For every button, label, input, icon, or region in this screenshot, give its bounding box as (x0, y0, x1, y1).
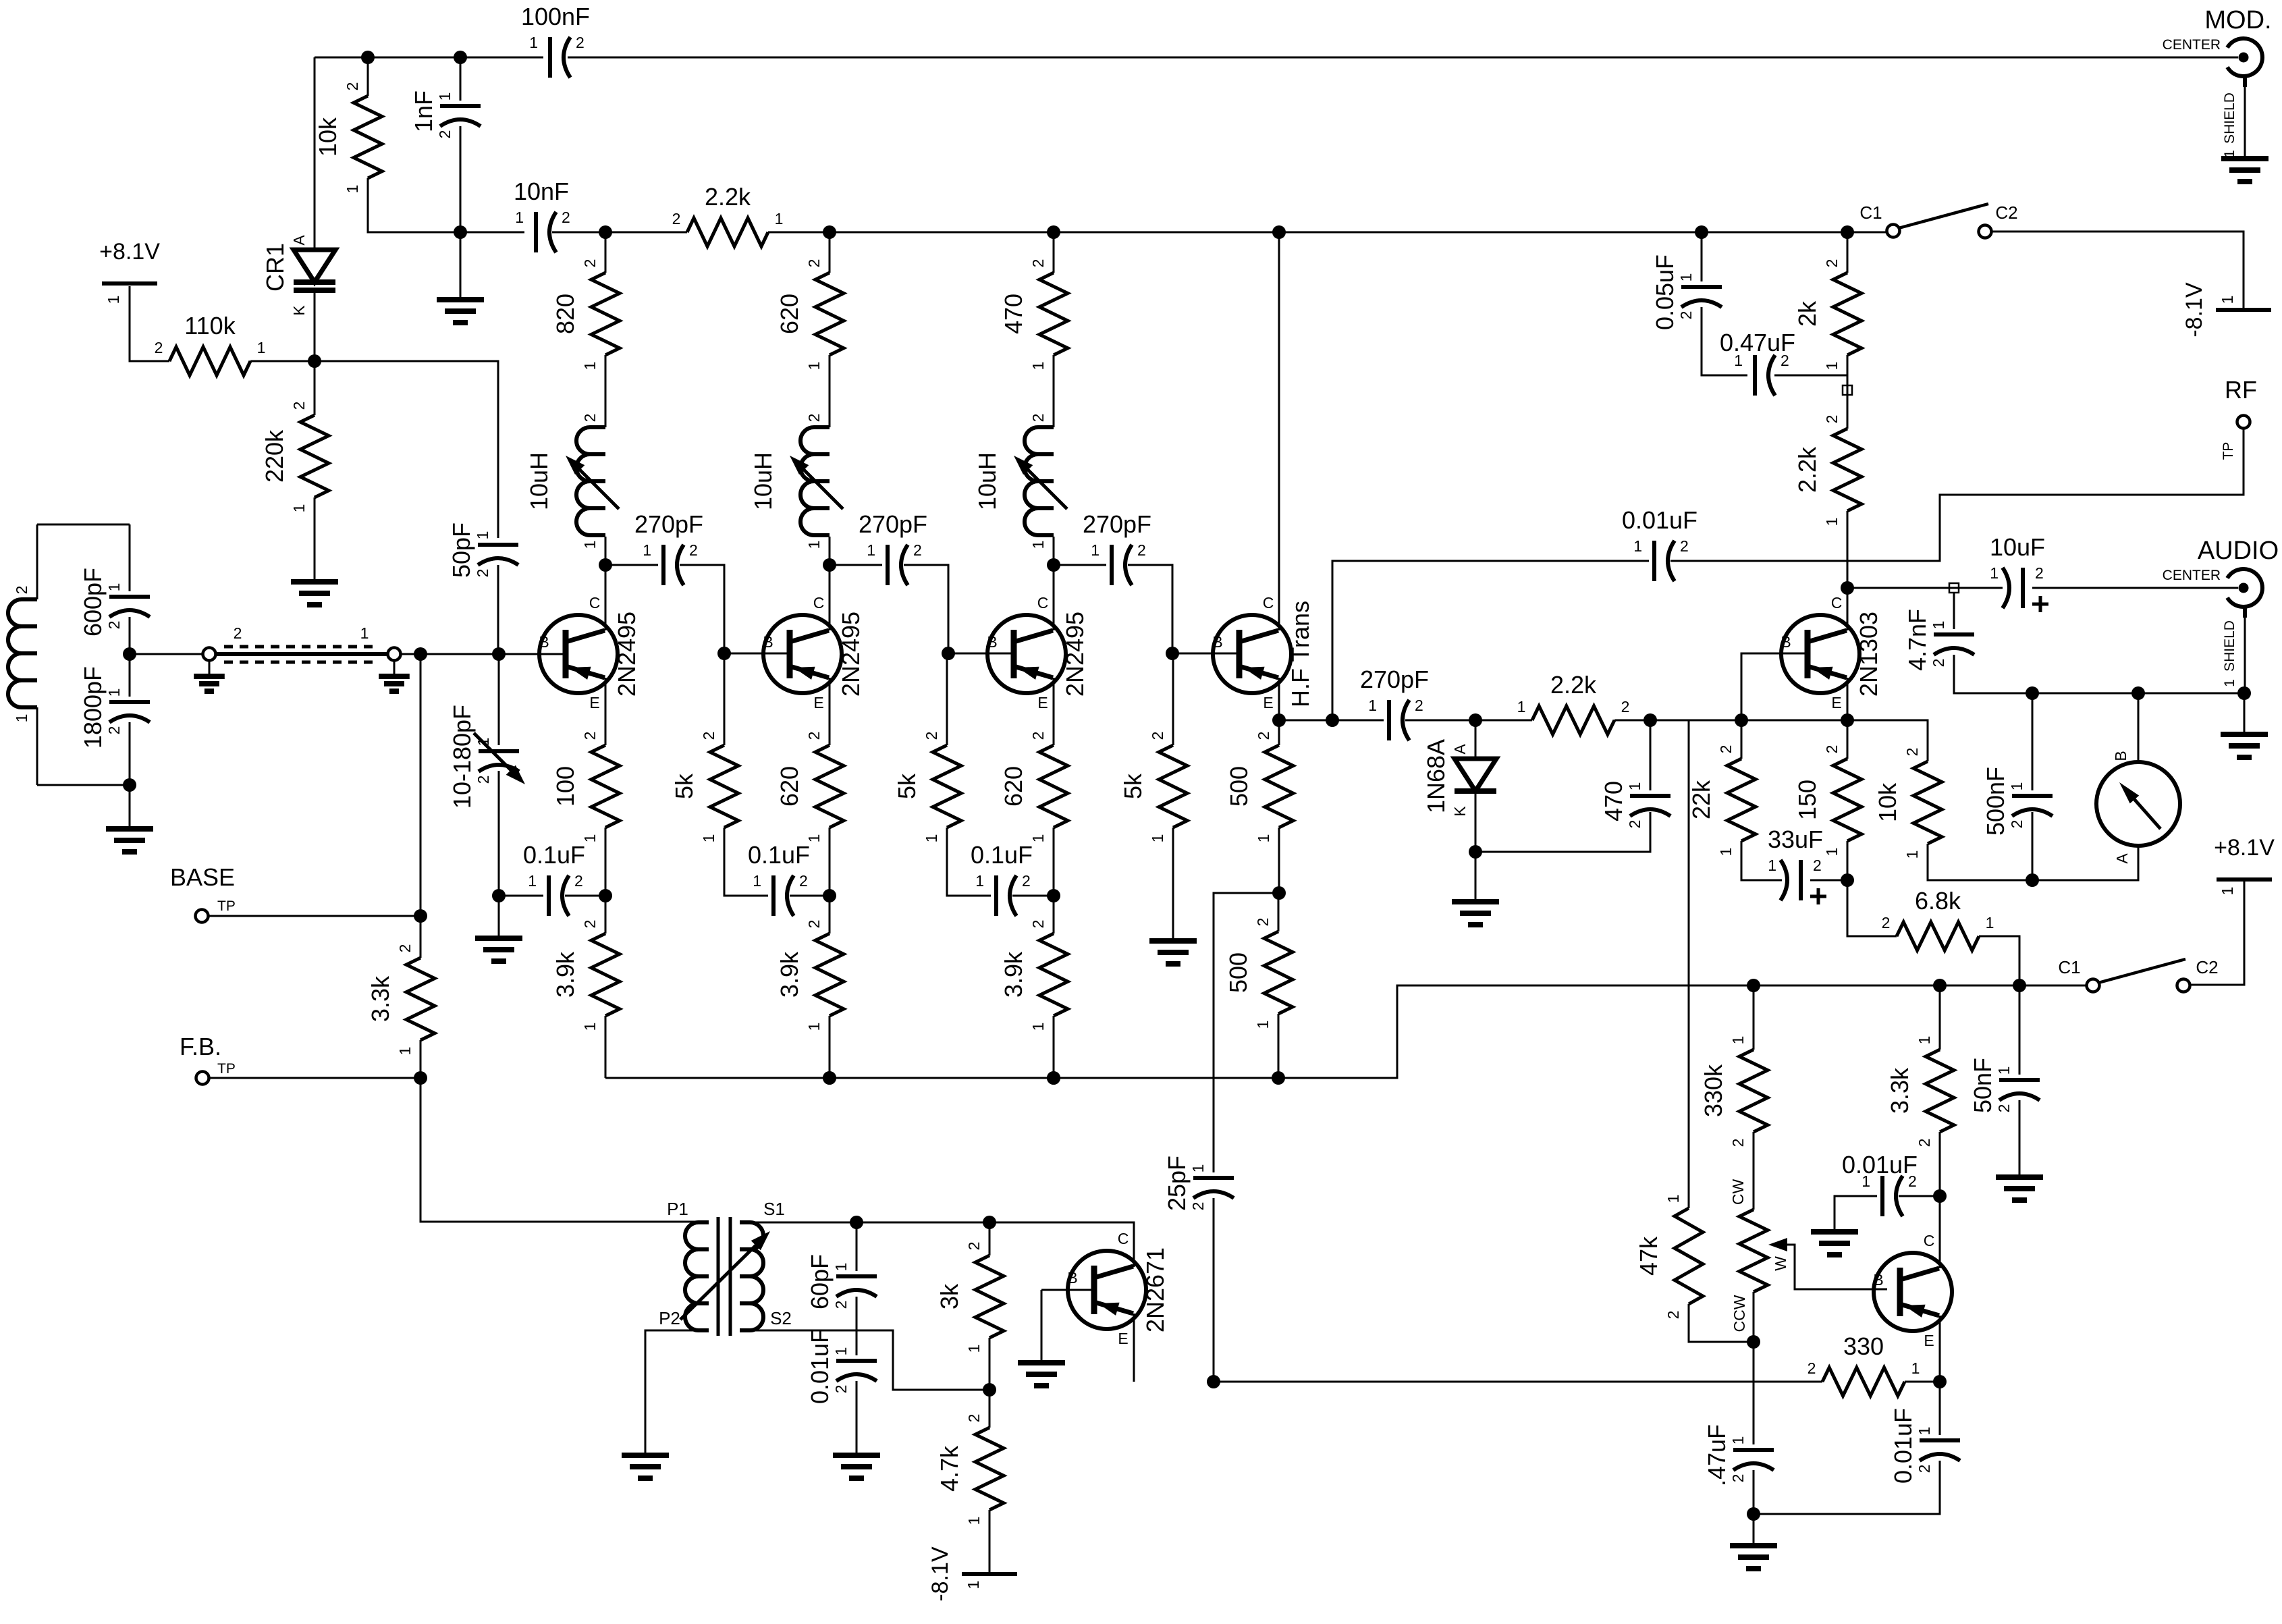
svg-text:2: 2 (105, 621, 123, 630)
capacitor 1800pF (79, 666, 150, 749)
svg-text:10uH: 10uH (749, 452, 777, 510)
junction bus1460 3.3k (1933, 979, 1947, 992)
capacitor 270pF stage3 (1083, 510, 1151, 585)
svg-text:10k: 10k (314, 117, 342, 157)
svg-text:820: 820 (551, 294, 579, 334)
wire Q1 collector pin (605, 567, 607, 630)
resistor 5k stage3 (893, 732, 961, 843)
junction Q5 collector node (1841, 581, 1854, 595)
svg-text:2: 2 (290, 402, 308, 410)
svg-text:2: 2 (672, 210, 681, 227)
junction S1 60pF (850, 1216, 863, 1229)
svg-text:330: 330 (1843, 1332, 1884, 1360)
wire S1 bus (740, 1222, 1134, 1267)
junction stage1 emitter bypass right (599, 889, 612, 902)
ground under 1nF (437, 300, 484, 323)
svg-text:2: 2 (396, 944, 414, 953)
capacitor 4.7nF (1903, 609, 1974, 671)
svg-text:2: 2 (1664, 1311, 1682, 1320)
wire stage3 270pF right (1128, 565, 1172, 653)
svg-text:2: 2 (805, 920, 823, 929)
svg-text:C1: C1 (1859, 202, 1882, 223)
resistor 5k stage2 (670, 732, 738, 843)
inductor antenna coil (8, 586, 37, 723)
wire 270pF det right (1405, 720, 1532, 722)
svg-text:C: C (1924, 1232, 1935, 1249)
svg-text:1N68A: 1N68A (1422, 739, 1450, 813)
junction top bus / 10k (361, 51, 375, 64)
wire Q3 base wire (948, 653, 1014, 655)
wire 22k to 33uF (1741, 841, 1782, 880)
wire 6.8k left (1847, 880, 1897, 936)
junction bus2 stage1 (599, 225, 612, 239)
wire 5k#1 bottom (724, 828, 768, 896)
svg-text:E: E (1263, 694, 1273, 711)
svg-text:5k: 5k (1119, 773, 1147, 799)
wire 47k top (1688, 720, 1690, 1208)
svg-text:1: 1 (965, 1345, 983, 1353)
dashed coax shield top (224, 645, 379, 649)
wire 0.05uF top (1701, 232, 1703, 281)
svg-text:2: 2 (1254, 918, 1272, 927)
wire Q2 collector pin (829, 567, 831, 630)
label 0.01uF agc (1842, 1151, 1918, 1179)
junction pot bottom node (1747, 1335, 1760, 1349)
svg-text:CENTER: CENTER (2163, 37, 2221, 53)
switch S1 top (1859, 202, 2017, 238)
svg-text:270pF: 270pF (1360, 666, 1429, 693)
svg-text:B: B (987, 633, 997, 651)
junction B5 riser (1735, 713, 1748, 727)
wire 110k to CR1 node (250, 360, 315, 362)
wire 1N68A ground stub (1475, 852, 1477, 902)
capacitor 270pF detector (1360, 666, 1429, 740)
label BASE (170, 863, 236, 914)
label CR1 (261, 243, 289, 292)
svg-text:2: 2 (1717, 745, 1735, 754)
wire stage1 res to coil (605, 355, 607, 427)
wire 6.8k right (1979, 936, 2019, 985)
wire 10k bottom to 10nF bus (368, 178, 460, 232)
wire 25pF bottom to Q6 emitter row (1213, 1198, 1215, 1382)
svg-text:1: 1 (753, 872, 761, 890)
wire 33uF right (1810, 879, 1847, 882)
capacitor 1nF (410, 90, 481, 138)
svg-text:1: 1 (1823, 362, 1841, 371)
svg-text:1: 1 (1903, 850, 1921, 859)
wire 5k#1 top (724, 653, 726, 745)
wire 150 top (1847, 720, 1849, 759)
svg-text:220k: 220k (261, 429, 288, 483)
svg-text:1: 1 (1990, 564, 1999, 582)
wire stage1 270pF left (605, 564, 658, 566)
ground under 220k (291, 582, 338, 605)
svg-text:+8.1V: +8.1V (2214, 835, 2275, 861)
svg-text:500: 500 (1225, 766, 1253, 807)
svg-text:E: E (1118, 1330, 1128, 1347)
svg-text:620: 620 (1000, 766, 1027, 807)
resistor 4.7k (935, 1414, 1004, 1525)
wire 10-180pF top (498, 654, 500, 745)
wire Q6 emitter row (1214, 1381, 1822, 1383)
svg-text:2: 2 (1930, 659, 1947, 668)
label 1N68A (1422, 739, 1450, 813)
wire 50nF top (2019, 985, 2021, 1075)
wire Q6 base (1041, 1289, 1095, 1291)
wire 3.9k stage2 to busE (829, 1016, 831, 1078)
svg-text:4.7k: 4.7k (935, 1445, 963, 1492)
label 0.47uF (1720, 329, 1795, 356)
transistor Q7 AGC (1873, 1232, 1952, 1349)
junction bus2 0.05uF (1695, 225, 1708, 239)
wire BASE TP to riser (208, 915, 420, 917)
resistor 2.2k mod (1793, 415, 1862, 526)
switch S2 bottom (2058, 957, 2218, 992)
wire Q4 emitter to 500 (1278, 720, 1280, 745)
svg-text:C2: C2 (2196, 957, 2218, 977)
junction 470 node (1643, 713, 1657, 727)
transistor Q2 2N2495 (763, 594, 865, 711)
junction busE stage2 (823, 1071, 836, 1085)
svg-text:2: 2 (1029, 920, 1047, 929)
pin 1 +8.1V right (2219, 887, 2236, 896)
svg-text:1: 1 (805, 834, 823, 843)
power -8.1V top right (2216, 308, 2271, 312)
svg-text:C: C (1118, 1230, 1129, 1247)
wire 5k#2 bottom (947, 828, 991, 896)
wire 150 bottom (1847, 841, 1849, 880)
svg-text:2N2671: 2N2671 (1141, 1247, 1169, 1332)
svg-text:CR1: CR1 (261, 243, 289, 292)
capacitor 10nF (514, 178, 570, 252)
svg-text:TP: TP (2221, 442, 2236, 460)
svg-text:2N1303: 2N1303 (1855, 612, 1882, 697)
wire 0.01uF to RF TP (1670, 428, 2244, 561)
wire 2k node to 2.2k (1847, 375, 1849, 429)
svg-text:1: 1 (257, 339, 266, 356)
svg-text:E: E (1037, 694, 1048, 711)
resistor 47k (1635, 1195, 1703, 1320)
wire stage2 270pF right (904, 565, 948, 653)
capacitor 0.01uF RF (1622, 506, 1697, 581)
wire +8.1V to 110k (130, 286, 169, 361)
svg-text:2: 2 (1029, 414, 1047, 423)
svg-text:0.01uF: 0.01uF (806, 1328, 834, 1404)
svg-text:2: 2 (2035, 564, 2044, 582)
wire F.B. TP to node (209, 1077, 420, 1079)
svg-text:B: B (1781, 633, 1791, 651)
svg-text:2: 2 (1823, 259, 1841, 268)
svg-text:P2: P2 (659, 1308, 680, 1328)
capacitor 50pF (447, 522, 518, 578)
svg-text:1: 1 (700, 834, 717, 843)
svg-text:10uH: 10uH (973, 452, 1001, 510)
capacitor 25pF (1163, 1156, 1234, 1211)
wire 5k#2 top (946, 653, 948, 745)
resistor 2.2k detector (1517, 671, 1630, 734)
wire 10-180pF bottom (498, 771, 500, 896)
label AUDIO SHIELD (2222, 620, 2237, 687)
wire 3.9k stage2 stub (829, 896, 831, 933)
power -8.1V bottom (962, 1572, 1017, 1576)
resistor 150 (1793, 745, 1862, 857)
wire Q6 base ground stub (1041, 1290, 1043, 1363)
svg-text:B: B (1212, 633, 1222, 651)
junction bottom row 500nF (2026, 873, 2039, 887)
svg-text:110k: 110k (184, 312, 236, 340)
resistor 330k (1700, 1036, 1768, 1147)
svg-text:2: 2 (700, 732, 717, 740)
svg-text:2: 2 (1916, 1465, 1933, 1473)
svg-text:10-180pF: 10-180pF (448, 705, 476, 809)
wire emitter return bus (605, 985, 2087, 1078)
junction detector node (1469, 713, 1482, 727)
svg-text:1800pF: 1800pF (79, 666, 107, 749)
wire stage2 collector res top (829, 232, 831, 273)
wire 60pF to 0.01uF (856, 1297, 858, 1355)
wire 3.3k agc bottom (1939, 1132, 1941, 1196)
svg-text:CCW: CCW (1731, 1295, 1748, 1332)
wire 0.01uF bottom top (1939, 1382, 1941, 1435)
svg-text:2: 2 (1149, 732, 1166, 740)
svg-text:S2: S2 (770, 1308, 792, 1328)
ground bottom right (1730, 1546, 1777, 1569)
wire 220k top stub (314, 361, 316, 415)
svg-text:.47uF: .47uF (1703, 1424, 1731, 1486)
junction tank bottom (123, 778, 136, 792)
junction shield bus meter (2131, 686, 2145, 700)
svg-text:2: 2 (913, 541, 922, 559)
wire 500 upper to mid node (1278, 828, 1280, 893)
svg-text:B: B (2112, 751, 2129, 761)
svg-text:1: 1 (805, 362, 823, 371)
junction bus2 Q4 collector (1272, 225, 1286, 239)
junction shield bus right (2237, 686, 2251, 700)
junction stage1 collector node (599, 558, 612, 572)
svg-text:6.8k: 6.8k (1915, 887, 1961, 915)
svg-text:2: 2 (1823, 745, 1841, 754)
svg-text:2: 2 (234, 624, 242, 642)
svg-text:1: 1 (396, 1047, 414, 1056)
svg-text:47k: 47k (1635, 1236, 1662, 1276)
svg-text:1: 1 (1029, 834, 1047, 843)
wire Q2 base wire (724, 653, 790, 655)
svg-text:500nF: 500nF (1982, 767, 2009, 836)
svg-text:2: 2 (576, 34, 585, 51)
svg-text:1: 1 (1189, 1164, 1207, 1173)
wire 10nF to 2.2k (552, 232, 687, 234)
wire 220k bottom to ground (314, 497, 316, 582)
svg-text:1: 1 (832, 1347, 850, 1356)
meter M1 (2096, 751, 2180, 863)
svg-text:B: B (539, 633, 549, 651)
junction bus1460 6.8k (2013, 979, 2026, 992)
unconnected marker near 2.2k (1843, 385, 1852, 395)
ground coax right (379, 676, 410, 691)
wire 1800pF bottom (129, 722, 131, 785)
svg-text:50nF: 50nF (1969, 1058, 1996, 1113)
capacitor 33uF (1768, 825, 1826, 904)
diode CR1 (290, 235, 335, 316)
wire 330k to pot (1753, 1132, 1755, 1210)
wire det to B5 riser (1650, 720, 1847, 722)
svg-text:2.2k: 2.2k (705, 183, 751, 211)
resistor 100 emitter stage1 (551, 732, 620, 843)
wire 500nF top (2032, 693, 2034, 790)
svg-text:1: 1 (805, 1023, 823, 1031)
wire 2k bottom (1847, 355, 1849, 375)
wire switch C2 to -8.1V (1991, 232, 2244, 308)
wire 3.9k stage3 stub (1053, 896, 1055, 933)
wire coax left ground stub (209, 660, 211, 676)
svg-text:B: B (1873, 1271, 1883, 1289)
svg-text:1: 1 (1149, 834, 1166, 843)
wire 10k top stub (367, 57, 369, 96)
wire 4.7nF top (1953, 593, 1955, 629)
svg-text:1: 1 (1986, 914, 1994, 931)
ground under 5k stage4 (1149, 941, 1197, 964)
label MOD SHIELD (2222, 92, 2237, 158)
svg-text:2: 2 (1029, 732, 1047, 740)
wire 3k bottom (989, 1338, 991, 1390)
svg-text:B: B (763, 633, 773, 651)
svg-text:2N2495: 2N2495 (613, 612, 641, 697)
wire .47uF ground stub (1753, 1514, 1755, 1546)
capacitor 270pF stage2 (859, 510, 927, 585)
svg-text:E: E (1924, 1332, 1934, 1349)
wire 5k3 to ground (1172, 828, 1174, 941)
svg-text:2: 2 (799, 872, 808, 890)
junction S1 3k (983, 1216, 996, 1229)
svg-text:A: A (1451, 744, 1469, 755)
svg-text:3.9k: 3.9k (551, 951, 579, 998)
wire stage1 coil to C node (605, 537, 607, 565)
junction .47uF bottom (1747, 1507, 1760, 1521)
resistor 500 upper (1225, 732, 1293, 843)
junction stage2 emitter node (823, 889, 836, 902)
svg-text:3.3k: 3.3k (366, 975, 394, 1022)
svg-text:2: 2 (1022, 872, 1031, 890)
svg-text:470: 470 (1000, 294, 1027, 334)
junction 10nF bus / 1nF column (454, 225, 467, 239)
wire stage1 collector res top (605, 232, 607, 273)
svg-text:2: 2 (581, 732, 599, 740)
svg-text:0.05uF: 0.05uF (1651, 254, 1679, 330)
svg-text:2.2k: 2.2k (1793, 446, 1821, 493)
junction Q4 emitter row (1272, 713, 1286, 727)
capacitor 10uF (1990, 533, 2048, 612)
resistor 2.2k top (672, 183, 784, 246)
svg-text:2: 2 (2008, 820, 2026, 829)
svg-text:3.9k: 3.9k (776, 951, 803, 998)
wire Q4 base wire (1173, 653, 1239, 655)
wire shield ground stub (2244, 693, 2246, 734)
wire bypass ground stub (498, 896, 500, 938)
resistor 3.3k feedback (366, 944, 435, 1056)
svg-text:2: 2 (13, 586, 30, 595)
capacitor 470 (1600, 781, 1670, 828)
svg-text:1: 1 (1029, 362, 1047, 371)
wire stage2 270pF left (830, 564, 882, 566)
junction bus2 stage3 (1047, 225, 1060, 239)
wire 620 stage3 bottom (1053, 828, 1055, 896)
label -8.1V (2181, 282, 2236, 337)
svg-text:2: 2 (1415, 697, 1423, 714)
wire 10k bottom (1928, 844, 2032, 880)
wire 0.1uF stage1 left (499, 895, 543, 897)
transistor Q6 2N2671 (1067, 1230, 1169, 1347)
svg-text:2: 2 (1255, 732, 1272, 740)
junction input/50pF node (492, 647, 506, 661)
wire MOD shield (2244, 76, 2246, 159)
capacitor 100nF (521, 3, 590, 78)
wire Q2 emitter pin (829, 678, 831, 745)
wire coax core (216, 652, 387, 656)
svg-text:4.7nF: 4.7nF (1903, 609, 1931, 671)
resistor 10k (314, 82, 382, 194)
capacitor 0.47uF (1734, 352, 1789, 396)
dashed coax shield bottom (224, 661, 379, 664)
svg-text:2k: 2k (1793, 300, 1821, 327)
svg-text:1: 1 (2008, 782, 2026, 791)
svg-text:1: 1 (1768, 857, 1776, 874)
svg-text:0.1uF: 0.1uF (971, 841, 1033, 869)
junction CR1/110k/220k/50pF node (308, 354, 321, 368)
svg-text:1: 1 (1729, 1036, 1747, 1045)
inductor 10uH stage3 (973, 414, 1067, 549)
svg-text:2: 2 (105, 726, 123, 735)
ground under 1N68A (1452, 902, 1499, 925)
junction emitter bypass left (492, 889, 506, 902)
svg-text:C: C (1037, 594, 1049, 612)
svg-text:2: 2 (805, 259, 823, 268)
svg-text:C1: C1 (2058, 957, 2080, 977)
svg-text:1: 1 (975, 872, 984, 890)
svg-text:0.01uF: 0.01uF (1842, 1151, 1918, 1179)
wire F.B. node down to transformer P1 (420, 1078, 709, 1222)
svg-text:2: 2 (1823, 415, 1841, 424)
junction stage2 collector node (823, 558, 836, 572)
ground coax left (194, 676, 225, 691)
svg-text:S1: S1 (763, 1199, 785, 1219)
svg-text:3.9k: 3.9k (1000, 951, 1027, 998)
resistor 22k (1687, 745, 1756, 857)
ground Q6 base (1018, 1363, 1065, 1386)
wire mid node to 25pF column (1214, 893, 1279, 1172)
svg-text:1: 1 (2222, 679, 2237, 687)
svg-text:2: 2 (832, 1385, 850, 1394)
resistor 620 emitter stage2 (776, 732, 844, 843)
resistor 820 stage1 (551, 259, 620, 371)
svg-text:33uF: 33uF (1768, 825, 1823, 853)
svg-text:1: 1 (1029, 1023, 1047, 1031)
wire top bus from CR1 anode riser to 100nF (315, 57, 543, 59)
label RF (2221, 376, 2257, 460)
wire CR1 anode riser (314, 57, 316, 250)
resistor 10k emitter (1874, 748, 1942, 859)
wire tank left upper (36, 524, 38, 599)
wire 600pF to 1800pF (129, 617, 131, 697)
wire E-row to 0.01uF riser (1332, 561, 1649, 720)
resistor 220k (261, 402, 329, 513)
svg-text:K: K (1451, 806, 1469, 817)
wire 3.3k bottom to FB node (420, 1040, 422, 1078)
svg-text:1: 1 (581, 362, 599, 371)
wire Q6 emitter pin (1133, 1314, 1135, 1382)
svg-text:1: 1 (515, 209, 524, 226)
svg-text:1: 1 (2219, 887, 2236, 896)
wire 1N68A anode (1475, 720, 1477, 759)
